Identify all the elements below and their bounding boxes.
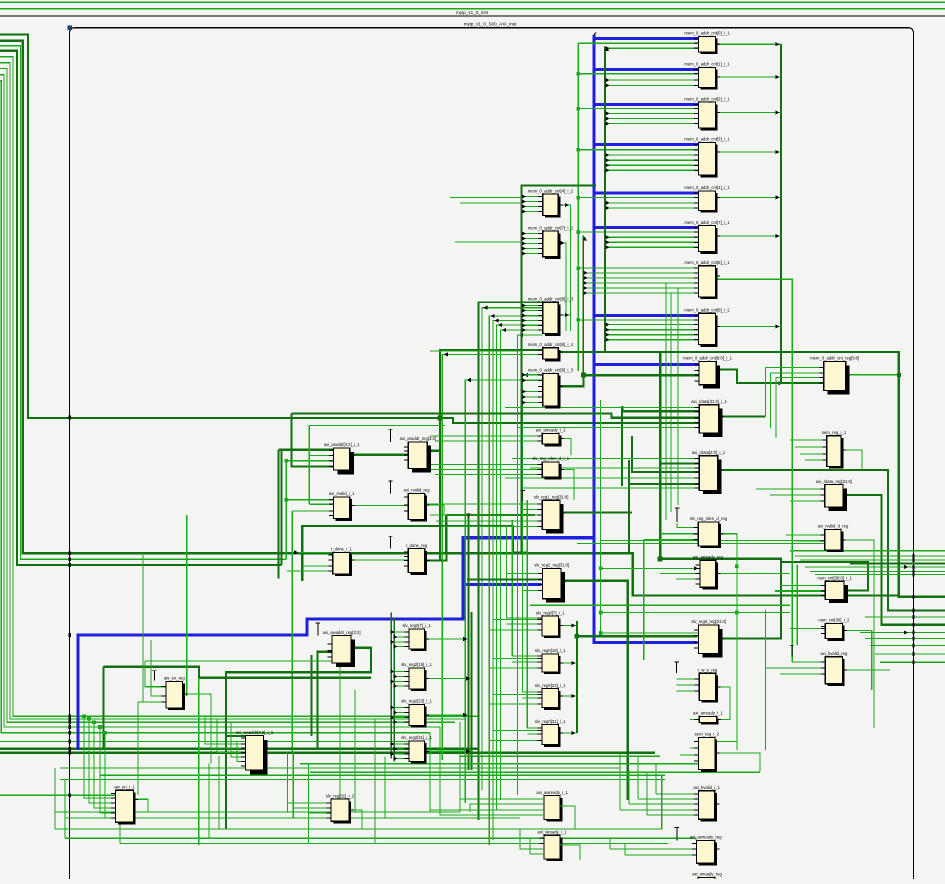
wire bundle b10	[0, 740, 420, 742]
svg-text:axi_araddr_reg[3:2]: axi_araddr_reg[3:2]	[400, 436, 436, 441]
wire v797	[796, 565, 798, 645]
wire arready_i_2 pins	[430, 436, 542, 441]
svg-text:axi_rvalid_i_1: axi_rvalid_i_1	[329, 491, 355, 496]
wire slv_reg2_reg pin thick	[467, 579, 543, 581]
component mem_0_addr_cnt[9]_i_3	[528, 368, 574, 409]
wire net slv distribution v578	[577, 43, 579, 371]
svg-text:axi_awaddr[3:2]_i_1: axi_awaddr[3:2]_i_1	[236, 730, 274, 735]
svg-text:mem_0_addr_cnt[8]_i_4: mem_0_addr_cnt[8]_i_4	[528, 342, 574, 347]
svg-text:axi_arready_reg: axi_arready_reg	[693, 554, 724, 559]
component slv_reg0_reg[31:0]	[691, 619, 726, 657]
wire rden_d_i_1 out	[559, 470, 574, 501]
svg-text:slv_reg[31]_i_2: slv_reg[31]_i_2	[326, 793, 355, 798]
wire net y525 thick	[302, 526, 527, 581]
component slv_reg0[7]_i_1	[536, 610, 565, 638]
svg-text:mem_0_addr_cnt[8]_i_1: mem_0_addr_cnt[8]_i_1	[684, 260, 730, 265]
wire awaddr_reg out	[226, 648, 371, 829]
wire i_2 output risers	[558, 203, 570, 331]
component mem_0_addr_cnt[7]_i_2	[528, 225, 574, 259]
wire net v291	[291, 414, 333, 467]
wire y540 row	[600, 540, 825, 542]
wire slv distribution verticals	[506, 500, 542, 734]
component slv_reg0[15]_i_1	[535, 648, 566, 674]
wire v736 dots	[735, 564, 739, 614]
wire rdone pins3	[287, 570, 333, 572]
wire bottom rows	[55, 756, 760, 843]
wire branch v578 top	[578, 42, 698, 44]
svg-text:mem_0_addr_cnt[8]_i_3: mem_0_addr_cnt[8]_i_3	[528, 297, 574, 302]
component slv_reg2[31]_i_1	[401, 735, 432, 763]
svg-text:mem_0_addr_cnt[7]_i_1: mem_0_addr_cnt[7]_i_1	[684, 220, 730, 225]
wire bundle b1	[0, 35, 699, 424]
component mem_0_addr_cnt[8]_i_4	[528, 342, 574, 361]
wire arrow v468	[466, 514, 470, 518]
wire bundle b4	[0, 51, 282, 565]
wire awaddr pin feeds	[226, 735, 246, 737]
component sero_reg_i_2	[694, 732, 720, 772]
clock stub axi_rvalid_reg	[388, 481, 392, 493]
svg-text:slv_reg0[7]_i_1: slv_reg0[7]_i_1	[536, 610, 565, 615]
component axi_bvalid_i_1	[693, 785, 720, 822]
svg-text:slv_reg0[31]_i_1: slv_reg0[31]_i_1	[535, 719, 566, 724]
wire net rdata20 out	[718, 470, 945, 611]
wire thick input t1	[0, 748, 479, 750]
wire bundle b3	[0, 46, 286, 559]
clock stub slv_reg1_reg	[521, 490, 525, 500]
wire bvalid_i_1 pins	[620, 794, 699, 815]
wire v643	[643, 540, 645, 661]
wire slv col right pin feeds	[489, 620, 542, 741]
component mem_0_addr_cnt[9:0]_i_1	[683, 356, 732, 389]
wire y612 long	[601, 612, 790, 614]
component num_cnt[30:0]_i_1	[817, 576, 852, 604]
svg-text:mem_0_addr_cnt[7]_i_2: mem_0_addr_cnt[7]_i_2	[528, 225, 574, 230]
component axi_rvalid_d_reg	[818, 524, 849, 552]
wire awready_reg pins	[610, 838, 697, 855]
wire bottom verticals	[55, 661, 460, 845]
wire rvalid reg out	[425, 505, 444, 515]
wire wready_i_1 out	[560, 845, 580, 860]
clock stub r_done_reg	[388, 536, 392, 548]
svg-text:slv_reg_rden_d_i_1: slv_reg_rden_d_i_1	[532, 456, 569, 461]
wire junction v286a	[285, 459, 288, 462]
component axi_awready_i_1	[536, 790, 568, 822]
svg-text:num_cnt[30]_i_2: num_cnt[30]_i_2	[818, 618, 850, 623]
wire bottom right verticals	[620, 753, 662, 829]
wire v292	[291, 511, 293, 753]
wire net v446	[445, 515, 447, 553]
wire slv_reg1_reg pins	[523, 509, 543, 511]
wire rden_d pin3	[644, 539, 698, 541]
wire v286	[285, 461, 287, 559]
wire araddr pin3	[286, 460, 333, 462]
clock stub axi_awready_reg	[675, 827, 679, 840]
component axi_awaddr_reg[3:2]	[323, 630, 361, 667]
svg-text:axi_bvalid_i_1: axi_bvalid_i_1	[693, 785, 720, 790]
wire araddr pin2	[309, 426, 445, 505]
wire sero1 out	[841, 450, 862, 470]
svg-text:mem_0_addr_cnt_reg[9:0]: mem_0_addr_cnt_reg[9:0]	[810, 356, 859, 361]
svg-text:mem_0_addr_cnt[3]_i_1: mem_0_addr_cnt[3]_i_1	[684, 137, 730, 142]
wire rdone reg out	[425, 553, 447, 560]
component axi_rdata[2:0]_i_1	[692, 450, 726, 494]
wire slv_reg1_reg out thick	[560, 511, 632, 513]
wire net mem9 to reg	[716, 370, 824, 383]
svg-text:axi_wready_reg: axi_wready_reg	[692, 872, 722, 877]
wire aw_en_i_1 pin feeds	[82, 714, 115, 818]
component mem_0_addr_cnt[7]_i_1	[684, 220, 730, 254]
wire rdone pin row	[297, 551, 333, 553]
wire input aw_en row	[0, 794, 116, 796]
wire rvalid_d pins	[786, 535, 825, 541]
svg-text:r_done_reg: r_done_reg	[406, 543, 428, 548]
svg-text:axi_araddr[3:2]_i_1: axi_araddr[3:2]_i_1	[324, 442, 361, 447]
svg-text:mem_0_addr_cnt[9:0]_i_1: mem_0_addr_cnt[9:0]_i_1	[683, 356, 732, 361]
wire numcnt pins	[780, 585, 825, 587]
wire net v471	[470, 612, 472, 770]
wire rvalid pin3	[292, 510, 333, 512]
wire awaddr i1 out	[263, 652, 332, 749]
wire rden_d pins	[677, 523, 698, 528]
wire awready_i_1 pin feeds	[430, 780, 544, 815]
component axi_rdata_reg[31:0]	[816, 479, 852, 511]
svg-text:r_done_i_1: r_done_i_1	[331, 547, 353, 552]
wire sero1 pins	[790, 440, 827, 460]
svg-text:slv_reg2[23]_i_1: slv_reg2[23]_i_1	[401, 699, 432, 704]
svg-text:axi_awready_i_1: axi_awready_i_1	[536, 790, 568, 795]
wire net rdata2 pin3	[629, 460, 699, 484]
wire v138 aw	[137, 702, 139, 795]
component mem_0_addr_cnt[2]_i_1	[684, 96, 730, 130]
component axi_rvalid_i_1	[329, 491, 355, 521]
wire slv31 i2 pins	[288, 803, 363, 829]
wire r_w_e out	[716, 687, 730, 719]
wire bundle b5	[0, 57, 479, 716]
wire net v468 stub	[467, 516, 469, 770]
wire y633 row	[601, 632, 699, 634]
wire net rdata31 out	[719, 416, 766, 418]
component sero_reg_i_1	[822, 430, 847, 469]
wire bundle b9	[0, 81, 430, 733]
svg-text:axi_arready_i_2: axi_arready_i_2	[536, 428, 566, 433]
wire boundary ticks left	[69, 416, 71, 798]
wire v186	[186, 515, 188, 696]
svg-text:mem_0_addr_cnt[0]_i_1: mem_0_addr_cnt[0]_i_1	[684, 31, 730, 36]
wire boundary ticks right	[912, 554, 914, 664]
svg-text:myip_v1_0_S00_AXI_inst: myip_v1_0_S00_AXI_inst	[464, 22, 517, 27]
wire net y514	[446, 514, 535, 516]
wire rden_d_i_1 pins	[425, 465, 542, 475]
wire wready_i_1 pin feeds	[520, 829, 544, 854]
component mem_0_addr_cnt[0]_i_1	[684, 31, 730, 55]
wire exit medium	[850, 563, 945, 565]
wire thick input t2	[0, 751, 655, 753]
wire v578 branches	[577, 72, 699, 322]
component mem_0_addr_cnt[4]_i_1	[684, 185, 730, 213]
wire net v394	[393, 618, 395, 761]
svg-text:aw_en_i_1: aw_en_i_1	[114, 784, 135, 789]
component r_done_i_1	[328, 547, 354, 577]
wire net v628 down	[628, 484, 630, 553]
wire rden_d out	[719, 534, 737, 750]
component slv_reg_rden_d_i_1	[532, 456, 569, 479]
wire net y666	[104, 667, 199, 678]
wire bvalid_reg out	[842, 669, 890, 671]
wire net v278	[277, 450, 279, 579]
component slv_reg2_reg[31:0]	[534, 563, 569, 603]
component r_done_reg	[404, 543, 430, 575]
svg-text:slv_reg1_reg[31:0]: slv_reg1_reg[31:0]	[534, 495, 569, 500]
component axi_araddr[3:2]_i_1	[324, 442, 361, 474]
component axi_rdata[31:3]_i_1	[691, 399, 727, 437]
svg-text:aw_en_reg: aw_en_reg	[164, 676, 185, 681]
wire rvalid_d out	[841, 540, 874, 728]
wire rvalid pin2	[309, 503, 333, 505]
wire araddr reg out	[427, 450, 440, 452]
component slv_reg_rden_d_reg	[690, 516, 728, 548]
component slv_reg2[7]_i_1	[402, 623, 431, 651]
component slv_reg2[15]_i_1	[401, 662, 432, 691]
wire net rdata pin1	[622, 406, 699, 411]
wire rvalid pin1	[286, 499, 333, 501]
wire y543 row	[577, 543, 825, 545]
wire v600 distr	[600, 400, 602, 633]
svg-text:slv_reg2[31]_i_1: slv_reg2[31]_i_1	[401, 735, 432, 740]
component axi_wready_reg	[692, 872, 722, 880]
wire junction v286b	[285, 498, 288, 501]
component axi_arready_reg	[693, 554, 724, 589]
component num_cnt[30]_i_2	[818, 618, 850, 641]
svg-text:mem_0_addr_cnt[1]_i_1: mem_0_addr_cnt[1]_i_1	[684, 62, 730, 67]
wire rdone pins2	[302, 565, 333, 567]
wire slv col pin feeds	[390, 630, 409, 761]
component mem_0_addr_cnt[4]_i_2	[528, 188, 574, 217]
wire net dark v583	[582, 235, 584, 375]
wire sero2 pin3	[680, 754, 699, 756]
component mem_0_addr_cnt_reg[9:0]	[810, 356, 859, 395]
wire right exits	[790, 551, 945, 663]
wire arready_i_2 out	[559, 439, 571, 456]
wire net rdata_reg out	[843, 495, 945, 625]
wire top bus line 1	[0, 1, 945, 3]
wire slv_reg2_reg out thick	[561, 581, 628, 800]
wire net y677	[199, 677, 371, 679]
wire slv_reg1_reg pin rows	[420, 504, 542, 527]
component axi_bvalid_reg	[820, 651, 848, 686]
clock stub r_w_e_reg	[674, 662, 678, 673]
wire aw_en_reg out	[183, 694, 211, 764]
wire sero2 pins	[699, 741, 737, 743]
svg-text:mem_0_addr_cnt[4]_i_1: mem_0_addr_cnt[4]_i_1	[684, 185, 730, 190]
wire araddr pin2b	[309, 455, 333, 457]
wire v143	[138, 553, 143, 702]
svg-text:axi_awaddr_reg[3:2]: axi_awaddr_reg[3:2]	[323, 630, 361, 635]
clock stub axi_awaddr_reg	[316, 623, 320, 636]
clock stub aw_en_reg	[152, 671, 156, 681]
wire araddr i1 out	[350, 454, 409, 456]
component r_w_e_reg	[695, 667, 721, 702]
wire bundle b2 long net	[0, 41, 899, 596]
svg-text:axi_wready_i_1: axi_wready_i_1	[538, 829, 568, 834]
svg-text:slv_reg0[15]_i_1: slv_reg0[15]_i_1	[535, 648, 566, 653]
wire slv_reg2 col outputs	[424, 637, 471, 754]
wire net araddr pin1 group	[279, 449, 334, 451]
wire rden_d pin2	[660, 533, 698, 535]
wire rdata_reg pins	[756, 489, 825, 501]
wire net y352 long	[558, 352, 945, 597]
component axi_araddr_reg[3:2]	[400, 436, 436, 472]
wire numcnt30 pins	[790, 628, 825, 630]
wire feeder verticals group1	[442, 306, 542, 845]
component axi_arready_i_2	[536, 428, 566, 447]
wire junction memreg	[897, 373, 901, 377]
wire r_w_e pins	[677, 679, 700, 691]
wire junction v440	[438, 416, 443, 421]
wire slv_reg2_reg pin4	[523, 590, 543, 592]
component mem_0_addr_cnt[8]_i_1	[684, 260, 730, 299]
wire awready_i_1 out	[560, 806, 575, 829]
wire rdone i1 out	[350, 559, 409, 561]
wire net v622	[621, 411, 623, 486]
svg-text:slv_reg_rden_d_reg: slv_reg_rden_d_reg	[690, 516, 728, 521]
component slv_reg0[31]_i_1	[535, 719, 566, 747]
wire awaddr small pins	[205, 694, 246, 762]
svg-text:slv_reg0[23]_i_1: slv_reg0[23]_i_1	[535, 683, 566, 688]
svg-text:mem_0_addr_cnt[4]_i_2: mem_0_addr_cnt[4]_i_2	[528, 188, 574, 193]
wire net v440	[440, 350, 543, 560]
component aw_en_reg	[162, 676, 188, 711]
wire net v660	[659, 352, 661, 559]
svg-text:axi_rdata[31:3]_i_1: axi_rdata[31:3]_i_1	[691, 399, 727, 404]
svg-text:mem_0_addr_cnt[9]_i_3: mem_0_addr_cnt[9]_i_3	[528, 368, 574, 373]
wire sero2 out	[715, 753, 760, 772]
wire arready_i_1 out	[690, 718, 699, 720]
component mem_0_addr_cnt[8]_i_3	[528, 297, 574, 336]
wire net dark v604	[604, 46, 606, 352]
wire v600 dots	[599, 567, 603, 635]
wire y605 long	[530, 604, 790, 606]
wire risers to mem pins	[666, 283, 699, 520]
wire v583 branches	[583, 237, 699, 296]
wire blue net main	[78, 33, 699, 751]
wire net v391	[390, 612, 392, 758]
svg-text:slv_reg2[7]_i_1: slv_reg2[7]_i_1	[402, 623, 431, 628]
wire slv_reg2_reg pin1	[506, 573, 542, 575]
wire aw_en_reg pins	[138, 640, 340, 702]
component aw_en_i_1	[111, 784, 138, 824]
svg-text:axi_rdata_reg[31:0]: axi_rdata_reg[31:0]	[816, 479, 852, 484]
module boundary myip_v1_0_inst	[0, 10, 945, 16]
wire arrow rdone	[294, 550, 298, 554]
wire arready_reg pins	[601, 566, 701, 579]
wire net rdata2 pins	[632, 436, 699, 472]
wire mem_0_addr_cnt collector	[716, 42, 783, 385]
wire bvalid_reg pins	[766, 662, 826, 674]
svg-text:axi_bvalid_reg: axi_bvalid_reg	[820, 651, 848, 656]
wire net T2 num_cnt	[781, 562, 868, 591]
svg-text:r_w_e_reg: r_w_e_reg	[698, 667, 718, 672]
wire net y413	[291, 414, 699, 418]
svg-text:sero_reg_i_1: sero_reg_i_1	[822, 430, 847, 435]
component slv_reg0[23]_i_1	[535, 683, 566, 710]
clock stub slv_reg_rden_d_reg	[675, 508, 679, 522]
wire net v103	[102, 667, 104, 749]
component axi_arready_i_1	[693, 711, 723, 725]
component mem_0_addr_cnt[9]_i_2	[684, 307, 730, 346]
wire net v311	[310, 655, 312, 736]
wire v765	[765, 610, 767, 750]
component axi_wready_i_1	[538, 829, 568, 861]
wire junction mem9i3	[581, 373, 586, 378]
component mem_0_addr_cnt[1]_i_1	[684, 62, 730, 90]
wire numcnt pin2	[775, 590, 825, 592]
svg-text:num_cnt[30:0]_i_1: num_cnt[30:0]_i_1	[817, 576, 852, 581]
wire bundle b7	[0, 68, 455, 722]
svg-text:slv_reg0_reg[31:0]: slv_reg0_reg[31:0]	[691, 619, 726, 624]
wire top bus line 2	[0, 8, 945, 10]
svg-text:slv_reg2[15]_i_1: slv_reg2[15]_i_1	[401, 662, 432, 667]
svg-text:axi_rvalid_reg: axi_rvalid_reg	[404, 488, 431, 493]
component slv_reg1_reg[31:0]	[534, 495, 569, 534]
wire box7 out long	[716, 279, 793, 662]
wire junction v660	[658, 556, 663, 561]
wire net v281	[281, 450, 283, 565]
wire aw_en_i_1 out	[133, 799, 148, 812]
svg-text:mem_0_addr_cnt[9]_i_2: mem_0_addr_cnt[9]_i_2	[684, 307, 730, 312]
wire net mem reg out	[846, 374, 899, 376]
wire sero2 pin2	[690, 747, 699, 749]
svg-text:myip_v1_0_inst: myip_v1_0_inst	[456, 10, 489, 15]
component axi_awaddr[3:2]_i_1	[236, 730, 274, 775]
wire mem i2 left feeds	[430, 198, 522, 352]
svg-text:axi_rvalid_d_reg: axi_rvalid_d_reg	[818, 524, 849, 529]
svg-text:sero_reg_i_2: sero_reg_i_2	[695, 732, 720, 737]
component axi_rvalid_reg	[404, 488, 431, 522]
clock stub axi_araddr_reg	[388, 429, 392, 442]
wire v521 branches	[522, 194, 543, 404]
component axi_awready_reg	[690, 835, 723, 866]
wire net rdata2 pin tap660	[660, 462, 699, 464]
svg-text:mem_0_addr_cnt[2]_i_1: mem_0_addr_cnt[2]_i_1	[684, 96, 730, 101]
wire rvalid i1 out	[350, 505, 409, 507]
clock stub axi_bvalid_reg	[790, 645, 794, 657]
component slv_reg2[23]_i_1	[401, 699, 432, 728]
wire feeder v478	[479, 302, 543, 820]
wire mem reg pin feeders	[765, 367, 823, 438]
wire bundle b6	[0, 63, 466, 719]
svg-text:slv_reg2_reg[31:0]: slv_reg2_reg[31:0]	[534, 563, 569, 568]
svg-text:axi_awready_reg: axi_awready_reg	[690, 835, 723, 840]
svg-text:axi_rdata[2:0]_i_1: axi_rdata[2:0]_i_1	[692, 450, 726, 455]
wire rdata input rows	[505, 408, 699, 489]
wire numcnt30 out	[842, 630, 871, 690]
wire slv_reg0 collector	[559, 621, 698, 735]
wire net mem9i3 out	[558, 375, 699, 386]
component slv_reg[31]_i_2	[326, 793, 355, 823]
svg-text:axi_arready_i_1: axi_arready_i_1	[693, 711, 723, 716]
wire net y558	[660, 559, 781, 639]
component mem_0_addr_cnt[3]_i_1	[684, 137, 730, 178]
wire arready_reg out	[716, 573, 790, 575]
wire feeder thick v521	[522, 185, 597, 552]
wire v604 branches	[605, 46, 699, 342]
wire bundle b8	[0, 75, 440, 727]
